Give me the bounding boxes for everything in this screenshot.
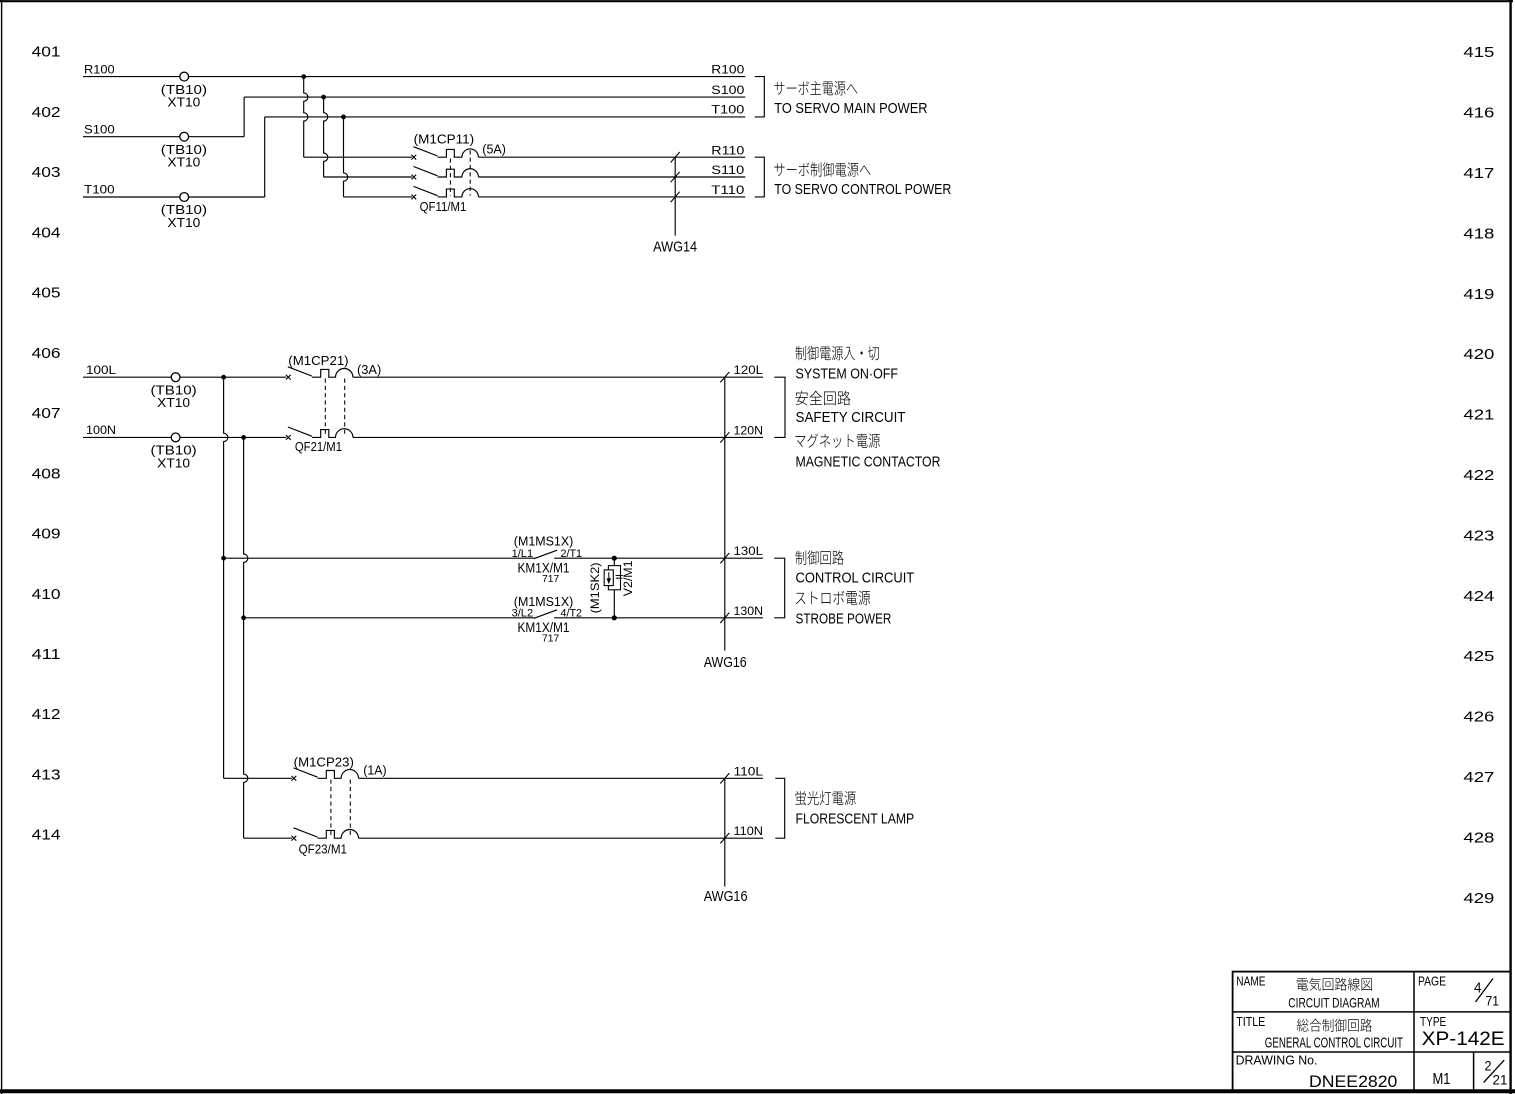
- svg-text:717: 717: [542, 574, 560, 585]
- svg-text:(5A): (5A): [482, 142, 506, 156]
- note magnetic contactor (Japanese): [795, 433, 879, 447]
- svg-text:424: 424: [1463, 589, 1494, 605]
- svg-text:(M1SK2): (M1SK2): [588, 562, 602, 613]
- title 電気回路線図: [1297, 978, 1372, 991]
- note servo control power (Japanese): [774, 162, 870, 177]
- wire 130N: [554, 604, 763, 618]
- wire 130L feed: [224, 557, 535, 559]
- bracket servo main power: [755, 77, 765, 117]
- svg-text:S100: S100: [711, 83, 744, 97]
- title block sheet 2/21 cell: [1484, 1058, 1508, 1088]
- svg-text:416: 416: [1463, 106, 1494, 122]
- title 総合制御回路: [1297, 1019, 1372, 1032]
- svg-text:QF23/M1: QF23/M1: [299, 842, 347, 857]
- svg-text:717: 717: [542, 633, 560, 644]
- svg-text:AWG16: AWG16: [704, 655, 747, 671]
- terminal XT10 (TB10) on T100: [161, 193, 207, 230]
- svg-text:SYSTEM ON·OFF: SYSTEM ON·OFF: [796, 366, 899, 383]
- contact KM1X/M1 (M1MS1X) pins 1/L1-2/T1: [512, 533, 582, 584]
- contact KM1X/M1 (M1MS1X) pins 3/L2-4/T2: [512, 594, 582, 644]
- svg-text:100L: 100L: [86, 363, 116, 377]
- svg-text:402: 402: [32, 105, 61, 121]
- wire T110: [478, 183, 745, 197]
- svg-text:420: 420: [1463, 347, 1494, 363]
- svg-text:MAGNETIC CONTACTOR: MAGNETIC CONTACTOR: [796, 454, 941, 471]
- svg-text:401: 401: [32, 45, 61, 61]
- svg-text:120N: 120N: [734, 423, 764, 437]
- junction node 100L tap: [221, 375, 226, 380]
- svg-text:FLORESCENT LAMP: FLORESCENT LAMP: [796, 811, 915, 828]
- note servo main power (Japanese): [774, 81, 857, 96]
- svg-text:414: 414: [32, 828, 61, 844]
- bracket servo control power: [755, 157, 765, 197]
- bracket fluorescent lamp: [775, 778, 784, 838]
- svg-text:TYPE: TYPE: [1420, 1014, 1446, 1029]
- circuit breaker QF21/M1 (M1CP21) 3A, 2-pole: [286, 353, 381, 454]
- terminal XT10 (TB10) on R100: [161, 72, 207, 109]
- wire R110: [478, 143, 745, 157]
- svg-text:417: 417: [1463, 166, 1494, 182]
- svg-text:419: 419: [1463, 287, 1494, 303]
- svg-text:413: 413: [32, 768, 61, 784]
- svg-text:406: 406: [32, 346, 61, 362]
- svg-text:418: 418: [1463, 226, 1494, 242]
- wire 130L: [554, 544, 763, 558]
- svg-text:R100: R100: [84, 62, 115, 76]
- svg-text:429: 429: [1463, 891, 1494, 907]
- wire 130N feed: [244, 617, 535, 619]
- wire 120N: [353, 423, 763, 437]
- svg-text:408: 408: [32, 466, 61, 482]
- svg-text:STROBE POWER: STROBE POWER: [796, 610, 892, 627]
- svg-text:421: 421: [1463, 408, 1494, 424]
- bracket system on-off / safety / magnetic: [774, 377, 785, 437]
- title block DRAWING No. cell DNEE2820: [1236, 1053, 1398, 1091]
- wire 120L: [353, 363, 763, 377]
- junction node R100 tap: [301, 74, 306, 79]
- junction node S100 tap: [321, 95, 326, 100]
- svg-text:TO SERVO CONTROL POWER: TO SERVO CONTROL POWER: [774, 181, 951, 198]
- svg-text:422: 422: [1463, 468, 1494, 484]
- title block NAME cell: [1236, 974, 1265, 989]
- svg-text:(1A): (1A): [363, 763, 386, 777]
- wire T100 (left feed, riser, bus): [83, 103, 745, 197]
- svg-text:XP-142E: XP-142E: [1422, 1028, 1505, 1050]
- circuit breaker QF23/M1 (M1CP23) 1A, 2-pole: [292, 754, 387, 856]
- svg-text:130N: 130N: [734, 604, 764, 618]
- terminal XT10 (TB10) on 100N: [151, 433, 197, 470]
- title block TITLE cell: [1236, 1014, 1265, 1029]
- svg-text:425: 425: [1463, 649, 1494, 665]
- svg-text:DRAWING No.: DRAWING No.: [1236, 1053, 1318, 1068]
- svg-text:1/L1: 1/L1: [512, 548, 533, 560]
- svg-text:S100: S100: [84, 122, 115, 136]
- wire 100L: [83, 363, 286, 377]
- svg-text:415: 415: [1463, 45, 1494, 61]
- svg-text:XT10: XT10: [167, 96, 200, 110]
- svg-text:T110: T110: [711, 183, 744, 197]
- svg-text:426: 426: [1463, 710, 1494, 726]
- svg-text:T100: T100: [84, 183, 115, 197]
- wire R100 drop to QF11 pole 1: [304, 77, 412, 158]
- svg-text:AWG14: AWG14: [653, 239, 697, 255]
- svg-text:CONTROL CIRCUIT: CONTROL CIRCUIT: [796, 569, 915, 586]
- svg-text:(M1MS1X): (M1MS1X): [514, 533, 574, 548]
- wire gauge note AWG16 (lamp): [704, 773, 748, 905]
- wire feeder A from 100L down to QF23 pole 1: [224, 377, 292, 778]
- wire gauge note AWG14: [653, 152, 697, 255]
- svg-text:423: 423: [1463, 528, 1494, 544]
- svg-text:409: 409: [32, 527, 61, 543]
- wire T100 drop to QF11 pole 3: [344, 117, 412, 197]
- svg-text:GENERAL CONTROL CIRCUIT: GENERAL CONTROL CIRCUIT: [1265, 1034, 1403, 1051]
- title block M1 cell: [1433, 1071, 1451, 1088]
- svg-text:4: 4: [1474, 979, 1482, 996]
- svg-text:403: 403: [32, 165, 61, 181]
- wire R100 bus: [83, 62, 745, 76]
- junction node 130N tap on feeder B: [241, 615, 246, 620]
- svg-text:AWG16: AWG16: [704, 889, 748, 905]
- svg-text:XT10: XT10: [157, 396, 190, 410]
- svg-text:QF21/M1: QF21/M1: [295, 439, 342, 454]
- svg-text:412: 412: [32, 707, 61, 723]
- svg-text:100N: 100N: [86, 423, 116, 437]
- svg-text:3/L2: 3/L2: [512, 608, 533, 620]
- svg-text:XT10: XT10: [167, 156, 200, 170]
- svg-text:TITLE: TITLE: [1236, 1014, 1265, 1029]
- svg-text:(M1CP21): (M1CP21): [288, 353, 348, 368]
- svg-text:NAME: NAME: [1236, 974, 1265, 989]
- wire feeder B from 100N down to QF23 pole 2: [244, 437, 292, 838]
- terminal XT10 (TB10) on S100: [161, 132, 207, 169]
- surge absorber V2/M1 (M1SK2): [588, 558, 635, 618]
- svg-text:71: 71: [1486, 992, 1500, 1008]
- svg-text:M1: M1: [1433, 1071, 1451, 1088]
- note strobe power (Japanese): [795, 591, 870, 606]
- svg-text:428: 428: [1463, 830, 1494, 846]
- junction node V2 top: [612, 556, 617, 561]
- svg-text:CIRCUIT DIAGRAM: CIRCUIT DIAGRAM: [1288, 995, 1379, 1011]
- svg-text:R100: R100: [711, 62, 744, 76]
- svg-text:110N: 110N: [734, 824, 764, 838]
- svg-text:110L: 110L: [734, 764, 764, 778]
- note safety circuit (Japanese): [795, 391, 850, 405]
- junction node 100N tap: [241, 435, 246, 440]
- svg-text:405: 405: [32, 286, 61, 302]
- svg-text:404: 404: [32, 225, 61, 241]
- svg-text:QF11/M1: QF11/M1: [420, 199, 467, 214]
- svg-text:130L: 130L: [734, 544, 764, 558]
- note fluorescent lamp power (Japanese): [796, 791, 856, 805]
- bracket control circuit / strobe power: [774, 558, 784, 618]
- note system on-off (Japanese): [795, 346, 879, 360]
- wire S100 (left feed, riser, bus): [83, 83, 745, 137]
- wire S100 drop to QF11 pole 2: [324, 97, 412, 177]
- wire S110: [478, 163, 745, 177]
- svg-text:(3A): (3A): [357, 363, 381, 377]
- title block PAGE cell 4/71: [1418, 974, 1499, 1009]
- svg-text:410: 410: [32, 587, 61, 603]
- junction node 130L tap on feeder A: [221, 556, 226, 561]
- svg-text:V2/M1: V2/M1: [621, 560, 635, 596]
- terminal XT10 (TB10) on 100L: [151, 373, 197, 410]
- svg-text:DNEE2820: DNEE2820: [1309, 1072, 1397, 1091]
- wire gauge note AWG16 (control): [704, 372, 747, 671]
- junction node V2 bottom: [612, 615, 617, 620]
- svg-text:21: 21: [1493, 1071, 1508, 1087]
- svg-text:SAFETY CIRCUIT: SAFETY CIRCUIT: [796, 409, 906, 426]
- junction node T100 tap: [341, 115, 346, 120]
- title block TYPE cell XP-142E: [1420, 1014, 1505, 1050]
- svg-text:2: 2: [1485, 1058, 1492, 1074]
- svg-text:R110: R110: [711, 143, 744, 157]
- svg-text:(M1CP11): (M1CP11): [414, 132, 475, 147]
- circuit breaker QF11/M1 (M1CP11) 5A, 3-pole: [411, 132, 506, 214]
- wire 110L: [359, 764, 764, 778]
- grid line numbers left column 401-414: [32, 45, 61, 844]
- svg-text:PAGE: PAGE: [1418, 974, 1446, 989]
- wire 100N: [83, 423, 286, 437]
- svg-text:(M1CP23): (M1CP23): [294, 754, 354, 769]
- svg-text:407: 407: [32, 406, 61, 422]
- svg-text:T100: T100: [711, 103, 744, 117]
- note control circuit (Japanese): [796, 550, 844, 564]
- svg-text:XT10: XT10: [167, 216, 200, 230]
- title block: [1233, 972, 1511, 1092]
- svg-text:S110: S110: [711, 163, 744, 177]
- svg-text:TO SERVO MAIN POWER: TO SERVO MAIN POWER: [774, 100, 927, 117]
- grid line numbers right column 415-429: [1463, 45, 1494, 907]
- svg-text:120L: 120L: [734, 363, 764, 377]
- svg-text:XT10: XT10: [157, 456, 190, 470]
- svg-text:411: 411: [32, 647, 61, 663]
- wire 110N: [359, 824, 764, 838]
- svg-text:427: 427: [1463, 770, 1494, 786]
